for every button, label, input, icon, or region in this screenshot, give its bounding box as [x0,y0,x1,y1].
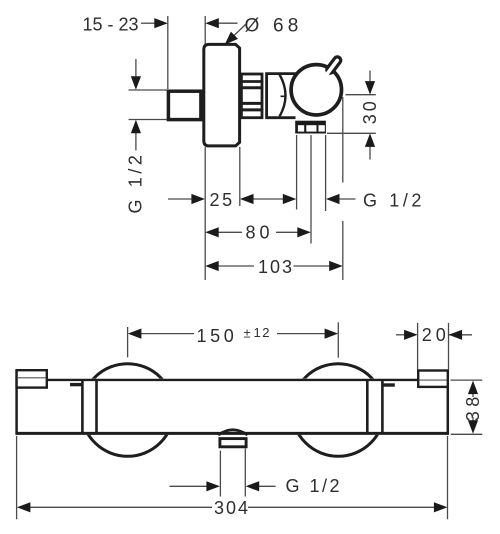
svg-text:15 - 23: 15 - 23 [83,14,139,34]
svg-text:304: 304 [214,498,250,518]
svg-text:80: 80 [246,223,274,243]
svg-text:25: 25 [210,190,235,210]
svg-text:G 1/2: G 1/2 [363,190,425,210]
svg-text:103: 103 [258,257,294,277]
svg-text:G 1/2: G 1/2 [126,151,146,213]
svg-text:±: ± [244,326,251,341]
svg-text:150: 150 [197,326,238,346]
svg-text:G 1/2: G 1/2 [286,476,343,496]
svg-text:12: 12 [254,325,271,340]
svg-text:Ø 68: Ø 68 [245,15,303,36]
svg-text:30: 30 [360,98,380,124]
svg-text:38: 38 [463,392,483,421]
svg-text:20: 20 [422,325,450,345]
